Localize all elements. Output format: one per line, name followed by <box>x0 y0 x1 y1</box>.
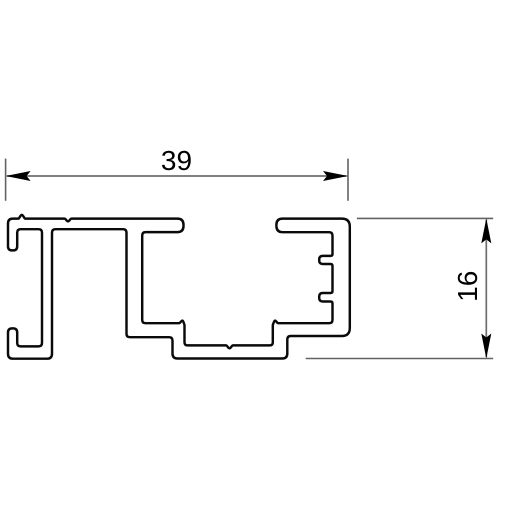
dimension 39: left extension line <box>5 159 7 201</box>
dimension 16: dimension line <box>485 220 487 357</box>
dimension 39: dimension line <box>7 175 347 177</box>
dimension 39: right extension line <box>347 159 349 201</box>
dimension 16: bottom extension line <box>306 358 494 360</box>
dimension 16: bottom arrowhead <box>481 334 491 359</box>
aluminum profile cross-section outline <box>8 215 350 359</box>
dimension 16: top extension line <box>357 217 493 219</box>
svg-text:39: 39 <box>161 145 192 176</box>
dimension 39: right arrowhead <box>323 171 348 181</box>
svg-text:16: 16 <box>452 271 483 302</box>
dimension 16: top arrowhead <box>481 218 491 243</box>
dimension 39: left arrowhead <box>6 171 31 181</box>
